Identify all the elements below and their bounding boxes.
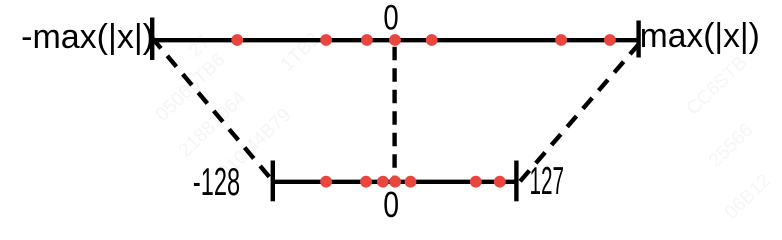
bottom axis right end tick (127) xyxy=(514,161,518,202)
bottom data dot 7 xyxy=(494,176,506,188)
top axis right end tick (max(|x|)) xyxy=(636,21,640,58)
watermark faint text cluster right xyxy=(683,52,775,223)
bottom data dot 2 xyxy=(360,176,372,188)
bottom axis line xyxy=(273,180,517,184)
svg-text:max(|x|): max(|x|) xyxy=(640,17,760,55)
bottom axis left end tick (-128) xyxy=(271,161,275,202)
top axis left end tick (-max(|x|)) xyxy=(150,18,154,61)
top data dot 1 xyxy=(231,34,243,46)
watermark faint text cluster left xyxy=(152,29,324,184)
bottom data dot 3 xyxy=(377,176,389,188)
top axis line xyxy=(152,38,639,42)
top data dot 2 xyxy=(320,34,332,46)
bottom data dot 5 xyxy=(405,176,417,188)
svg-text:0: 0 xyxy=(383,0,398,37)
svg-text:06B12: 06B12 xyxy=(721,170,775,222)
top data dot 3 xyxy=(361,34,373,46)
top data dot 6 xyxy=(555,34,567,46)
bottom data dot 4 (zero) xyxy=(389,176,401,188)
bottom data dot 1 xyxy=(320,176,332,188)
svg-text:127: 127 xyxy=(530,160,565,203)
bottom data dot 6 xyxy=(470,176,482,188)
svg-text:-max(|x|): -max(|x|) xyxy=(21,18,154,56)
svg-text:1TB2: 1TB2 xyxy=(277,29,324,76)
dashed right mapping diagonal xyxy=(520,44,640,183)
svg-text:0: 0 xyxy=(383,184,399,222)
svg-text:25566: 25566 xyxy=(705,120,758,172)
svg-text:CC6STB: CC6STB xyxy=(683,52,752,119)
top data dot 7 xyxy=(604,34,616,46)
top data dot 4 (zero) xyxy=(389,34,401,46)
svg-text:-128: -128 xyxy=(193,161,240,204)
top data dot 5 xyxy=(426,34,438,46)
dashed vertical zero mapping line xyxy=(392,47,396,185)
dashed left mapping diagonal xyxy=(152,38,273,182)
